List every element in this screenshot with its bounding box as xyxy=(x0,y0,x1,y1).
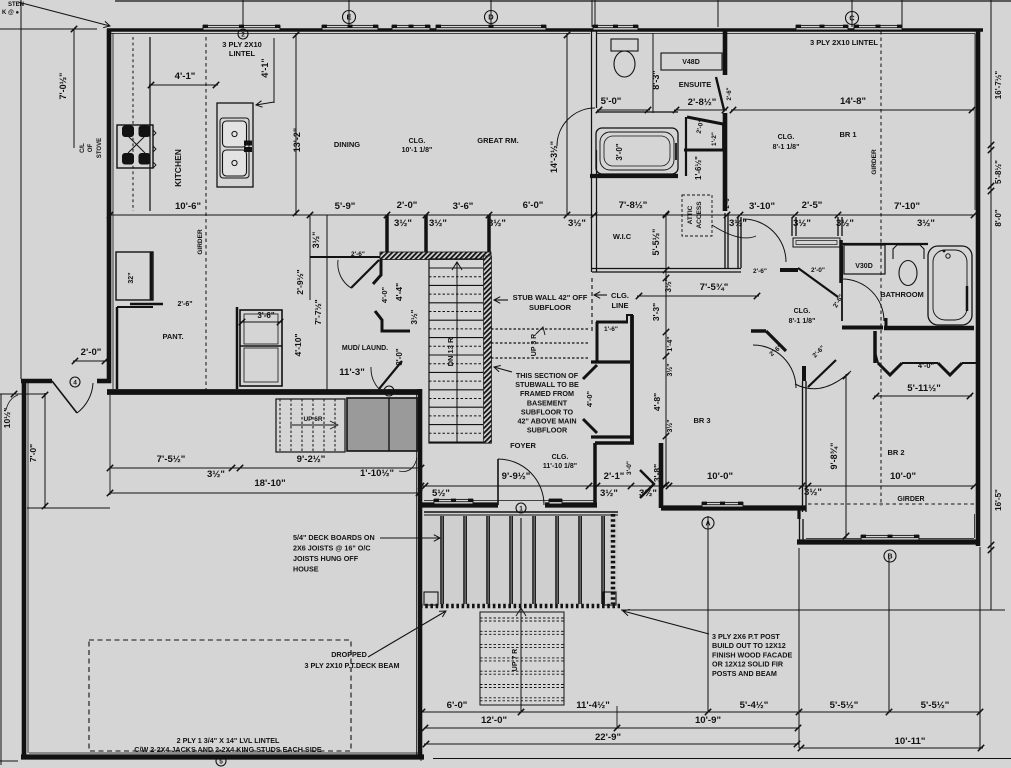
svg-text:C/W 2-2X4 JACKS AND 2-2X4 KING: C/W 2-2X4 JACKS AND 2-2X4 KING STUDS EAC… xyxy=(134,745,322,754)
svg-text:2X6 JOISTS @ 16" O/C: 2X6 JOISTS @ 16" O/C xyxy=(293,544,371,553)
svg-text:6'-0": 6'-0" xyxy=(447,700,468,711)
svg-text:3½": 3½" xyxy=(488,218,506,229)
svg-text:2'-6": 2'-6" xyxy=(727,87,733,100)
svg-text:BR 3: BR 3 xyxy=(693,416,710,425)
svg-text:BUILD OUT TO 12X12: BUILD OUT TO 12X12 xyxy=(712,641,786,650)
svg-text:14'-8": 14'-8" xyxy=(840,96,866,107)
svg-text:2'-6": 2'-6" xyxy=(725,195,731,208)
svg-text:DINING: DINING xyxy=(334,140,360,149)
svg-text:2'-0": 2'-0" xyxy=(397,200,418,211)
svg-text:POSTS AND BEAM: POSTS AND BEAM xyxy=(712,669,777,678)
svg-text:ACCESS: ACCESS xyxy=(696,201,703,229)
svg-text:18'-10": 18'-10" xyxy=(254,478,285,489)
svg-text:5'-11½": 5'-11½" xyxy=(907,383,941,394)
svg-text:3½": 3½" xyxy=(666,419,674,432)
svg-text:GREAT RM.: GREAT RM. xyxy=(477,136,519,145)
svg-text:10'-6": 10'-6" xyxy=(175,201,201,212)
svg-text:V48D: V48D xyxy=(682,59,700,66)
svg-text:3½": 3½" xyxy=(836,218,854,229)
svg-text:7'-0": 7'-0" xyxy=(28,444,38,462)
svg-text:OF: OF xyxy=(88,144,94,153)
svg-text:13'-2": 13'-2" xyxy=(292,128,302,152)
svg-text:BR 1: BR 1 xyxy=(839,130,856,139)
svg-text:7'-5½": 7'-5½" xyxy=(157,454,186,465)
svg-text:SUBFLOOR: SUBFLOOR xyxy=(529,303,572,312)
svg-text:A: A xyxy=(705,521,710,528)
svg-text:3'-6": 3'-6" xyxy=(453,201,474,212)
svg-text:STUBWALL TO BE: STUBWALL TO BE xyxy=(515,380,579,389)
svg-text:3½": 3½" xyxy=(793,218,811,229)
svg-text:D: D xyxy=(488,13,494,22)
svg-text:3½": 3½" xyxy=(639,488,657,499)
svg-text:32”: 32” xyxy=(128,272,135,283)
svg-text:KITCHEN: KITCHEN xyxy=(173,149,183,187)
svg-text:7'-8½": 7'-8½" xyxy=(619,200,648,211)
svg-text:5'-0": 5'-0" xyxy=(601,96,622,107)
svg-text:5/4" DECK BOARDS ON: 5/4" DECK BOARDS ON xyxy=(293,533,375,542)
svg-text:DN 13 R: DN 13 R xyxy=(446,337,455,366)
svg-text:LINE: LINE xyxy=(611,301,628,310)
svg-text:11'-3": 11'-3" xyxy=(339,367,365,378)
svg-text:4'-0": 4'-0" xyxy=(380,286,389,303)
svg-text:UP 7 R: UP 7 R xyxy=(512,649,519,671)
svg-text:E: E xyxy=(346,13,351,22)
svg-text:4'-10": 4'-10" xyxy=(293,333,303,356)
svg-text:3½": 3½" xyxy=(311,232,321,249)
svg-text:42" ABOVE MAIN: 42" ABOVE MAIN xyxy=(517,417,576,426)
svg-text:2'-6": 2'-6" xyxy=(351,251,365,258)
svg-text:8'-0": 8'-0" xyxy=(994,209,1003,226)
svg-text:FOYER: FOYER xyxy=(510,441,536,450)
svg-text:GIRDER: GIRDER xyxy=(871,149,878,175)
svg-text:B: B xyxy=(887,554,892,561)
svg-text:V30D: V30D xyxy=(855,263,873,270)
svg-text:BR 2: BR 2 xyxy=(887,448,904,457)
svg-text:DROPPED: DROPPED xyxy=(331,650,367,659)
svg-text:STOVE: STOVE xyxy=(97,138,103,158)
svg-text:5½": 5½" xyxy=(432,488,450,499)
svg-text:5'-9": 5'-9" xyxy=(335,201,356,212)
svg-text:GIRDER: GIRDER xyxy=(197,229,204,255)
svg-text:2'-0": 2'-0" xyxy=(81,347,102,358)
svg-text:UP 3 R: UP 3 R xyxy=(531,334,538,356)
svg-text:FINISH WOOD FACADE: FINISH WOOD FACADE xyxy=(712,650,792,659)
svg-text:THIS SECTION OF: THIS SECTION OF xyxy=(516,371,579,380)
svg-text:7'-10": 7'-10" xyxy=(894,201,920,212)
svg-text:4'-8": 4'-8" xyxy=(652,393,662,411)
svg-text:3½": 3½" xyxy=(804,487,822,498)
svg-text:10'-0": 10'-0" xyxy=(890,471,916,482)
svg-text:8'-3": 8'-3" xyxy=(651,70,661,89)
svg-text:2'-6": 2'-6" xyxy=(177,301,192,308)
svg-text:STEN: STEN xyxy=(8,2,24,8)
svg-text:STUB WALL 42" OFF: STUB WALL 42" OFF xyxy=(513,293,588,302)
svg-text:16'-7½": 16'-7½" xyxy=(994,71,1003,100)
svg-text:10'-9": 10'-9" xyxy=(695,715,721,726)
svg-text:3'-6": 3'-6" xyxy=(257,311,274,320)
svg-text:10'-11": 10'-11" xyxy=(895,736,926,747)
svg-text:CLG.: CLG. xyxy=(552,454,569,461)
svg-text:9'-9½": 9'-9½" xyxy=(502,471,531,482)
svg-text:7'-0½": 7'-0½" xyxy=(58,73,68,100)
svg-text:8'-1 1/8": 8'-1 1/8" xyxy=(789,318,816,325)
svg-text:5'-5½": 5'-5½" xyxy=(921,700,950,711)
svg-text:CLG.: CLG. xyxy=(409,138,426,145)
svg-text:CLG.: CLG. xyxy=(611,291,629,300)
svg-text:1'-2": 1'-2" xyxy=(711,132,718,146)
svg-text:11'-4½": 11'-4½" xyxy=(576,700,610,711)
svg-text:FRAMED FROM: FRAMED FROM xyxy=(520,389,574,398)
svg-text:3'-0": 3'-0" xyxy=(395,348,404,365)
svg-text:4: 4 xyxy=(73,379,77,386)
svg-text:2'-0": 2'-0" xyxy=(811,267,825,274)
svg-text:8'-1 1/8": 8'-1 1/8" xyxy=(773,144,800,151)
svg-text:3½": 3½" xyxy=(917,218,935,229)
svg-text:3½": 3½" xyxy=(429,218,447,229)
svg-text:2'-8½": 2'-8½" xyxy=(688,97,717,108)
svg-text:11'-10 1/8": 11'-10 1/8" xyxy=(543,463,577,470)
svg-text:3½": 3½" xyxy=(666,363,674,376)
svg-text:9'-2½": 9'-2½" xyxy=(297,454,326,465)
svg-text:3 PLY 2X6 P.T POST: 3 PLY 2X6 P.T POST xyxy=(712,632,780,641)
svg-text:3 PLY 2X10 LINTEL: 3 PLY 2X10 LINTEL xyxy=(810,38,878,47)
svg-text:12'-0": 12'-0" xyxy=(481,715,507,726)
svg-text:HOUSE: HOUSE xyxy=(293,565,319,574)
svg-text:3'-3": 3'-3" xyxy=(651,303,661,321)
svg-text:4'-1": 4'-1" xyxy=(175,71,196,82)
svg-text:UP 6R: UP 6R xyxy=(303,416,322,423)
svg-text:3½": 3½" xyxy=(600,488,618,499)
svg-text:4'-1": 4'-1" xyxy=(260,58,270,77)
svg-text:MUD/ LAUND.: MUD/ LAUND. xyxy=(342,345,388,352)
svg-text:10'-1 1/8": 10'-1 1/8" xyxy=(402,147,433,154)
svg-text:2'-5": 2'-5" xyxy=(802,200,823,211)
svg-text:SUBFLOOR TO: SUBFLOOR TO xyxy=(521,407,574,416)
svg-text:3'-8": 3'-8" xyxy=(652,464,662,482)
svg-text:14'-3½": 14'-3½" xyxy=(549,141,559,173)
svg-text:10'-0": 10'-0" xyxy=(707,471,733,482)
svg-text:BASEMENT: BASEMENT xyxy=(527,398,568,407)
svg-text:1'-10½": 1'-10½" xyxy=(360,468,394,479)
svg-text:5'-8½": 5'-8½" xyxy=(994,160,1003,184)
svg-text:ATTIC: ATTIC xyxy=(687,205,694,224)
svg-text:9'-8¾": 9'-8¾" xyxy=(829,443,839,470)
svg-text:BATHROOM: BATHROOM xyxy=(880,290,924,299)
svg-text:W.I.C: W.I.C xyxy=(613,232,632,241)
svg-text:3'-10": 3'-10" xyxy=(749,201,775,212)
svg-text:SUBFLOOR: SUBFLOOR xyxy=(527,426,568,435)
svg-text:3½": 3½" xyxy=(207,469,225,480)
svg-text:3: 3 xyxy=(387,388,391,395)
svg-text:2 PLY 1 3/4" X 14" LVL LINTEL: 2 PLY 1 3/4" X 14" LVL LINTEL xyxy=(177,736,280,745)
svg-text:C/L: C/L xyxy=(80,143,86,153)
svg-text:K @ ●: K @ ● xyxy=(2,10,20,16)
svg-text:3 PLY 2X10 P.T.DECK BEAM: 3 PLY 2X10 P.T.DECK BEAM xyxy=(305,661,400,670)
svg-text:ENSUITE: ENSUITE xyxy=(679,80,712,89)
svg-text:1'-4": 1'-4" xyxy=(667,336,674,351)
svg-text:5: 5 xyxy=(219,758,223,765)
svg-text:CLG.: CLG. xyxy=(778,134,795,141)
svg-text:C: C xyxy=(849,14,855,23)
svg-text:3½": 3½" xyxy=(568,218,586,229)
svg-text:22'-9": 22'-9" xyxy=(595,732,621,743)
svg-text:LINTEL: LINTEL xyxy=(229,49,256,58)
svg-text:3'-0": 3'-0" xyxy=(626,461,633,475)
svg-text:4'-0": 4'-0" xyxy=(585,390,594,407)
svg-text:5'-4½": 5'-4½" xyxy=(740,700,769,711)
svg-text:1'-6": 1'-6" xyxy=(604,326,618,333)
svg-text:JOISTS HUNG OFF: JOISTS HUNG OFF xyxy=(293,554,359,563)
svg-text:2: 2 xyxy=(241,31,245,38)
svg-text:5'-5½": 5'-5½" xyxy=(830,700,859,711)
svg-text:5'-5½": 5'-5½" xyxy=(651,229,661,256)
svg-text:3½": 3½" xyxy=(394,218,412,229)
svg-text:PANT.: PANT. xyxy=(162,332,183,341)
svg-text:10½": 10½" xyxy=(2,408,12,429)
svg-text:16'-5": 16'-5" xyxy=(994,489,1003,511)
svg-text:3½": 3½" xyxy=(664,277,673,292)
svg-text:3 PLY 2X10: 3 PLY 2X10 xyxy=(222,40,262,49)
svg-text:GIRDER: GIRDER xyxy=(897,496,924,503)
svg-text:6'-0": 6'-0" xyxy=(523,200,544,211)
svg-text:OR 12X12 SOLID FIR: OR 12X12 SOLID FIR xyxy=(712,660,784,669)
svg-text:3½": 3½" xyxy=(410,309,419,324)
svg-text:3½": 3½" xyxy=(729,218,747,229)
svg-text:3'-0": 3'-0" xyxy=(615,143,624,160)
svg-text:1'-6½": 1'-6½" xyxy=(694,156,703,180)
svg-text:4'-4": 4'-4" xyxy=(394,283,404,301)
svg-text:1: 1 xyxy=(519,505,523,512)
svg-text:4'-0": 4'-0" xyxy=(918,361,935,370)
svg-text:2'-6": 2'-6" xyxy=(753,268,767,275)
svg-text:CLG.: CLG. xyxy=(794,308,811,315)
svg-text:7'-5¾": 7'-5¾" xyxy=(700,282,729,293)
svg-text:2'-1": 2'-1" xyxy=(604,471,625,482)
svg-text:7'-7½": 7'-7½" xyxy=(313,299,323,324)
svg-text:2'-9½": 2'-9½" xyxy=(295,269,305,294)
